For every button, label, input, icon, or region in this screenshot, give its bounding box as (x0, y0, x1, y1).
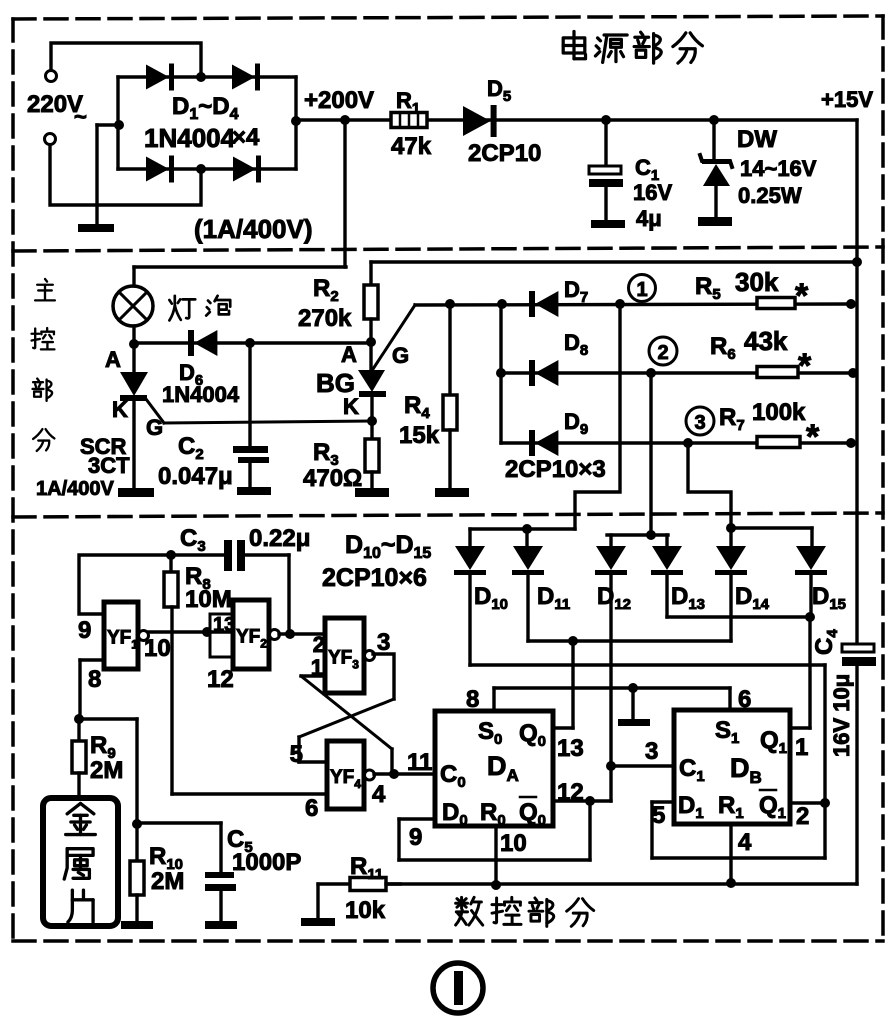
svg-text:5: 5 (652, 802, 665, 829)
svg-text:+15V: +15V (821, 87, 873, 112)
svg-text:×4: ×4 (232, 124, 260, 151)
svg-text:3: 3 (645, 738, 658, 765)
svg-text:G: G (146, 415, 163, 440)
svg-text:270k: 270k (298, 305, 352, 332)
svg-text:2M: 2M (151, 868, 184, 895)
svg-text:A: A (105, 347, 121, 372)
svg-text:10M: 10M (185, 586, 232, 613)
svg-text:2CP10×6: 2CP10×6 (322, 564, 427, 592)
svg-text:*: * (795, 277, 809, 315)
svg-text:0.047μ: 0.047μ (158, 463, 233, 490)
svg-text:2: 2 (657, 342, 668, 364)
svg-text:10: 10 (500, 830, 527, 857)
svg-text:2: 2 (796, 803, 809, 830)
svg-text:9: 9 (409, 824, 422, 851)
svg-text:10: 10 (144, 635, 171, 662)
svg-text:2: 2 (313, 632, 325, 657)
svg-text:G: G (392, 343, 409, 368)
svg-text:13: 13 (213, 614, 235, 636)
svg-text:6: 6 (305, 795, 318, 822)
svg-text:30k: 30k (735, 267, 779, 297)
svg-text:+200V: +200V (304, 87, 374, 114)
svg-text:1: 1 (311, 655, 323, 680)
svg-text:8: 8 (88, 666, 101, 693)
svg-text:4: 4 (738, 829, 752, 856)
svg-text:2CP10: 2CP10 (468, 140, 541, 167)
svg-text:3CT: 3CT (88, 453, 130, 478)
svg-text:4: 4 (372, 781, 386, 808)
svg-text:15k: 15k (399, 422, 440, 449)
svg-text:10k: 10k (345, 897, 386, 924)
svg-text:100k: 100k (752, 399, 806, 426)
svg-text:5: 5 (290, 741, 303, 768)
svg-text:470Ω: 470Ω (303, 465, 362, 492)
svg-text:9: 9 (78, 617, 91, 644)
svg-text:K: K (112, 397, 128, 422)
svg-text:4μ: 4μ (636, 206, 662, 231)
svg-text:12: 12 (207, 666, 234, 693)
svg-text:(1A/400V): (1A/400V) (194, 214, 313, 244)
svg-text:14~16V: 14~16V (740, 156, 817, 181)
svg-text:16V 10μ: 16V 10μ (829, 674, 854, 757)
svg-text:47k: 47k (391, 133, 432, 160)
svg-text:1A/400V: 1A/400V (36, 478, 114, 500)
svg-text:43k: 43k (744, 326, 788, 356)
svg-text:DW: DW (737, 126, 777, 153)
svg-text:1: 1 (795, 734, 808, 761)
svg-text:1N4004: 1N4004 (144, 123, 236, 153)
svg-text:*: * (798, 347, 812, 385)
svg-text:6: 6 (738, 686, 751, 713)
svg-text:A: A (341, 342, 357, 367)
svg-text:BG: BG (316, 368, 355, 398)
svg-text:0.25W: 0.25W (738, 183, 802, 208)
svg-text:8: 8 (466, 686, 479, 713)
svg-text:11: 11 (407, 749, 432, 776)
svg-text:~: ~ (74, 104, 87, 129)
svg-text:*: * (806, 418, 820, 456)
svg-text:1N4004: 1N4004 (162, 382, 240, 407)
svg-text:1: 1 (636, 279, 647, 301)
svg-text:16V: 16V (633, 180, 672, 205)
svg-text:13: 13 (557, 735, 584, 762)
svg-text:3: 3 (694, 412, 705, 434)
svg-text:12: 12 (557, 779, 584, 806)
svg-text:1000P: 1000P (232, 849, 301, 876)
svg-text:2M: 2M (90, 757, 123, 784)
svg-text:0.22μ: 0.22μ (249, 525, 310, 552)
svg-text:3: 3 (377, 629, 390, 656)
svg-text:D1~D4: D1~D4 (172, 93, 239, 123)
svg-text:2CP10×3: 2CP10×3 (505, 456, 606, 483)
